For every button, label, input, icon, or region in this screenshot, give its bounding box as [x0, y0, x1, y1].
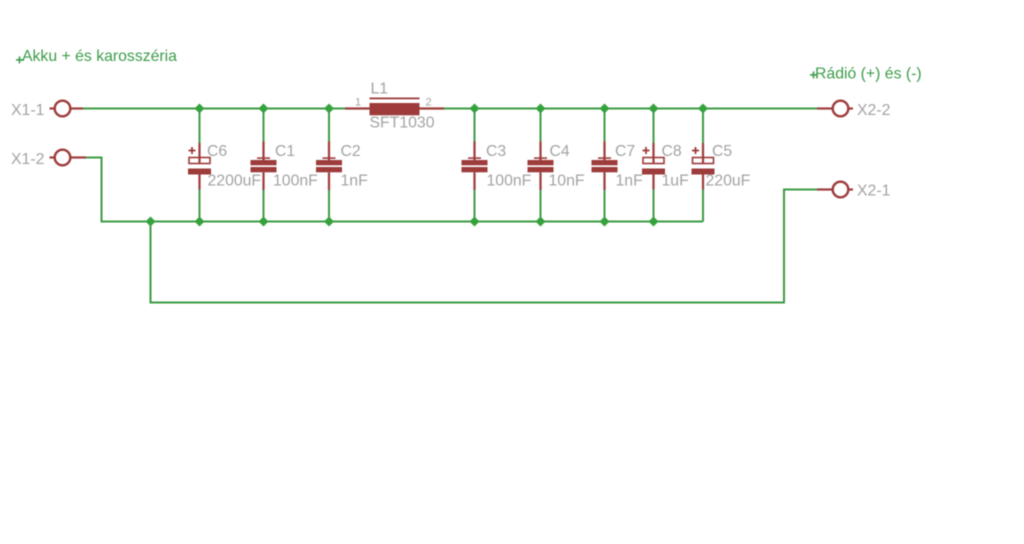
svg-text:100nF: 100nF — [273, 173, 318, 190]
svg-text:C6: C6 — [207, 143, 227, 160]
svg-text:2200uF: 2200uF — [208, 173, 262, 190]
svg-text:X2-1: X2-1 — [857, 183, 891, 200]
svg-text:L1: L1 — [371, 81, 389, 98]
svg-text:C7: C7 — [615, 143, 635, 160]
svg-text:10nF: 10nF — [549, 173, 585, 190]
svg-text:C3: C3 — [486, 143, 506, 160]
svg-text:1nF: 1nF — [341, 173, 369, 190]
svg-text:1nF: 1nF — [616, 173, 644, 190]
svg-text:1: 1 — [355, 97, 361, 109]
svg-text:C1: C1 — [275, 143, 295, 160]
svg-text:C5: C5 — [712, 143, 732, 160]
svg-text:X2-2: X2-2 — [857, 102, 890, 119]
svg-text:SFT1030: SFT1030 — [370, 115, 435, 132]
svg-text:C8: C8 — [662, 143, 682, 160]
svg-text:C4: C4 — [550, 143, 570, 160]
svg-text:X1-1: X1-1 — [11, 102, 45, 119]
svg-text:X1-2: X1-2 — [11, 151, 44, 168]
svg-text:220uF: 220uF — [706, 173, 751, 190]
svg-text:Akku + és karosszéria: Akku + és karosszéria — [22, 48, 177, 65]
svg-text:100nF: 100nF — [487, 173, 532, 190]
svg-text:1uF: 1uF — [662, 173, 690, 190]
svg-text:Rádió (+) és (-): Rádió (+) és (-) — [815, 66, 922, 83]
svg-text:C2: C2 — [341, 143, 361, 160]
svg-text:2: 2 — [426, 97, 432, 109]
